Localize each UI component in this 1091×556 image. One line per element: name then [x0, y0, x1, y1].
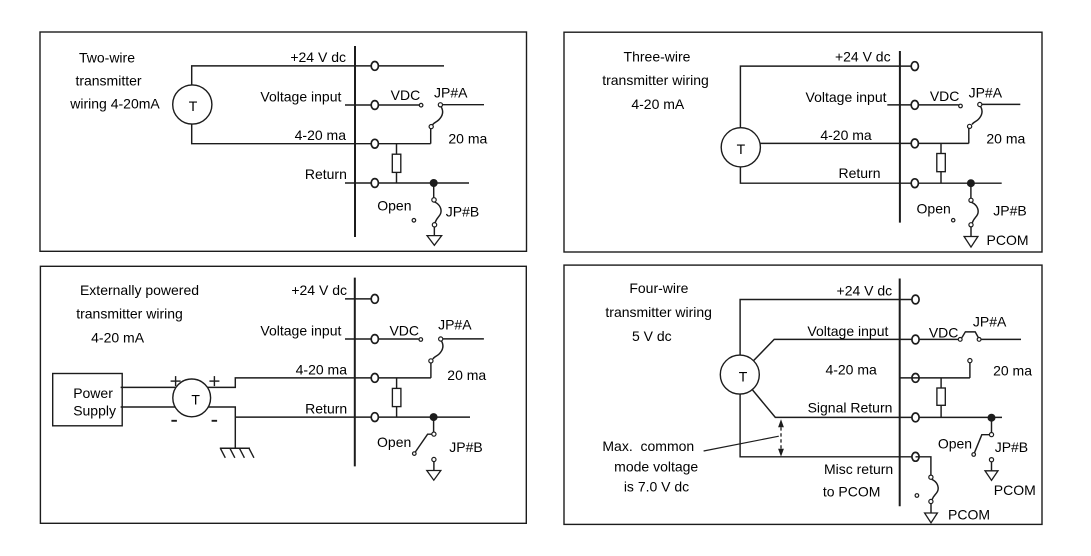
- terminal Return: [371, 179, 378, 188]
- svg-text:JP#B: JP#B: [446, 204, 479, 220]
- svg-text:4-20 ma: 4-20 ma: [295, 127, 347, 143]
- svg-text:JP#B: JP#B: [995, 439, 1028, 455]
- svg-text:20 ma: 20 ma: [448, 130, 487, 146]
- transmitter T1 circle: [173, 85, 212, 124]
- label title "Four-wire transmitter wiring 5 V dc": [605, 280, 712, 344]
- svg-text:PCOM: PCOM: [948, 507, 990, 523]
- polarity + sign (left): [171, 376, 181, 386]
- wire transmitter - to Return row and ground: [206, 407, 235, 448]
- node junction Signal Return/JP#B: [988, 414, 996, 422]
- svg-text:JP#B: JP#B: [993, 203, 1026, 219]
- wire Return row: [235, 416, 470, 418]
- svg-text:Open: Open: [938, 435, 972, 451]
- svg-text:JP#A: JP#A: [434, 85, 468, 101]
- svg-text:4-20 mA: 4-20 mA: [631, 96, 685, 112]
- svg-text:+24 V dc: +24 V dc: [835, 49, 891, 65]
- svg-text:JP#A: JP#A: [969, 84, 1003, 100]
- svg-text:JP#B: JP#B: [449, 439, 482, 455]
- wire stub Voltage input row: [887, 104, 958, 106]
- jumper JP#B (open position): [413, 417, 437, 462]
- svg-text:+24 V dc: +24 V dc: [837, 282, 893, 298]
- svg-text:Supply: Supply: [73, 403, 116, 419]
- terminal Return: [371, 413, 378, 422]
- svg-text:4-20 mA: 4-20 mA: [91, 329, 145, 345]
- node VDC open contact: [419, 103, 423, 107]
- terminal Signal Return: [912, 413, 919, 422]
- wire Misc return terminal to PCOM jumper: [916, 457, 931, 475]
- svg-text:to PCOM: to PCOM: [823, 483, 881, 499]
- wire 4-20 ma terminal to 20 ma jumper stub: [900, 377, 970, 379]
- wire transmitter + to 4-20 ma row: [207, 378, 431, 388]
- wire from transmitter top to +24 V dc terminal: [740, 66, 914, 128]
- svg-text:VDC: VDC: [389, 323, 419, 339]
- wire from transmitter bottom to 4-20 ma terminal: [192, 124, 431, 144]
- jumper Misc return to PCOM (closed): [915, 475, 938, 504]
- chassis ground symbol: [220, 448, 254, 458]
- svg-text:T: T: [739, 368, 748, 384]
- dashed arrow for common mode voltage span: [778, 419, 784, 456]
- ground symbol PCOM below JP#B: [964, 227, 978, 247]
- jumper JP#B (closed to ground): [412, 183, 441, 227]
- terminal Voltage input: [371, 335, 378, 344]
- svg-text:4-20 ma: 4-20 ma: [820, 127, 872, 143]
- terminal Return: [911, 179, 918, 188]
- svg-text:+24 V dc: +24 V dc: [291, 282, 347, 298]
- terminal Voltage input: [371, 101, 378, 110]
- svg-text:+24 V dc: +24 V dc: [290, 49, 346, 65]
- node Open contact of JP#B: [413, 452, 417, 456]
- wire power supply - to transmitter: [121, 406, 179, 408]
- wire from transmitter top to +24 V dc terminal: [740, 300, 915, 375]
- svg-text:Power: Power: [73, 385, 113, 401]
- svg-text:transmitter wiring: transmitter wiring: [605, 304, 712, 320]
- node Open contact of JP#B: [972, 453, 976, 457]
- svg-text:T: T: [737, 141, 746, 157]
- jumper JP#A (set to 20 ma position): [429, 103, 442, 144]
- svg-text:is 7.0 V dc: is 7.0 V dc: [624, 478, 689, 494]
- node junction Return/JP#B: [430, 179, 438, 187]
- wire Return row: [345, 182, 469, 184]
- svg-text:Misc return: Misc return: [824, 461, 893, 477]
- node Open contact of JP#B: [412, 219, 416, 223]
- transmitter T1 circle: [721, 128, 760, 167]
- wire right of JP#A: [982, 103, 1020, 105]
- wire right of JP#A: [443, 104, 485, 106]
- svg-text:Externally powered: Externally powered: [80, 282, 199, 298]
- jumper JP#B (closed to PCOM): [952, 183, 979, 227]
- wire right of JP#A: [443, 338, 484, 340]
- wire from transmitter top to +24 V dc terminal: [192, 66, 444, 85]
- svg-text:VDC: VDC: [391, 87, 421, 103]
- current-sense resistor: [937, 143, 946, 183]
- svg-text:4-20 ma: 4-20 ma: [296, 361, 348, 377]
- label title "Externally powered transmitter wiring 4-20 mA": [76, 282, 199, 345]
- label title "Two-wire transmitter wiring 4-20mA": [69, 49, 160, 111]
- svg-text:5 V dc: 5 V dc: [632, 328, 672, 344]
- terminal 4-20 ma: [911, 139, 918, 148]
- terminal +24 V dc: [371, 62, 378, 71]
- svg-text:Open: Open: [377, 434, 411, 450]
- ground symbol below JP#B: [427, 462, 441, 481]
- terminal Voltage input: [911, 101, 918, 110]
- label title "Three-wire transmitter wiring 4-20 mA": [602, 49, 709, 112]
- panel 1: two-wire transmitter wiring 4-20mA: [40, 32, 527, 251]
- svg-text:JP#A: JP#A: [973, 314, 1007, 330]
- svg-text:Voltage input: Voltage input: [806, 89, 887, 105]
- svg-text:JP#A: JP#A: [438, 316, 472, 332]
- current-sense resistor: [937, 378, 945, 418]
- svg-text:VDC: VDC: [930, 88, 960, 104]
- svg-text:mode voltage: mode voltage: [614, 458, 698, 474]
- ground symbol PCOM at bottom: [925, 504, 938, 523]
- svg-text:Four-wire: Four-wire: [629, 280, 688, 296]
- svg-text:wiring 4-20mA: wiring 4-20mA: [69, 95, 160, 111]
- wire power supply + to transmitter: [121, 386, 180, 388]
- svg-text:Voltage input: Voltage input: [260, 322, 341, 338]
- ground symbol PCOM below JP#B: [985, 462, 998, 481]
- wire from transmitter to Voltage input terminal: [740, 339, 959, 374]
- svg-text:4-20 ma: 4-20 ma: [825, 362, 877, 378]
- svg-text:Max. common: Max. common: [602, 438, 694, 454]
- terminal Voltage input: [912, 335, 919, 344]
- panel 4: four-wire transmitter wiring 5 V dc: [564, 265, 1042, 524]
- svg-text:VDC: VDC: [929, 325, 959, 341]
- svg-text:PCOM: PCOM: [994, 482, 1036, 498]
- svg-text:transmitter wiring: transmitter wiring: [602, 72, 709, 88]
- terminal bus line: [354, 278, 356, 467]
- svg-text:Signal Return: Signal Return: [808, 399, 893, 415]
- svg-text:Two-wire: Two-wire: [79, 49, 135, 65]
- terminal 4-20 ma: [371, 374, 378, 383]
- polarity - sign (left): [171, 420, 177, 422]
- node Open contact of JP#B: [952, 219, 955, 222]
- terminal bus line: [899, 279, 901, 507]
- node open contact of Misc jumper: [915, 494, 919, 498]
- svg-text:PCOM: PCOM: [987, 232, 1029, 248]
- wire from transmitter bottom to Return terminal: [740, 167, 1001, 184]
- terminal +24 V dc: [912, 295, 919, 304]
- svg-text:transmitter wiring: transmitter wiring: [76, 306, 183, 322]
- transmitter T1 circle: [720, 355, 759, 394]
- jumper JP#A (set to 20 ma position): [968, 102, 982, 143]
- svg-text:20 ma: 20 ma: [447, 367, 486, 383]
- node VDC open contact: [959, 104, 963, 108]
- current-sense resistor: [392, 378, 401, 417]
- svg-text:Three-wire: Three-wire: [624, 49, 691, 65]
- terminal bus line: [899, 51, 901, 223]
- ground symbol below JP#B: [427, 227, 442, 245]
- svg-text:Open: Open: [377, 197, 411, 213]
- polarity + sign (right): [209, 376, 219, 386]
- node VDC open contact: [419, 338, 423, 342]
- wire right of JP#A: [981, 338, 1021, 340]
- wire from transmitter right to 4-20 ma terminal: [760, 142, 968, 144]
- current-sense resistor: [392, 144, 401, 183]
- svg-text:Voltage input: Voltage input: [260, 88, 341, 104]
- terminal bus line: [354, 46, 356, 237]
- svg-text:Open: Open: [917, 201, 951, 217]
- wire stub Voltage input row: [345, 338, 419, 340]
- jumper JP#B (open position): [972, 418, 994, 462]
- wire stub Voltage input row: [345, 104, 419, 106]
- wire from transmitter to Signal Return terminal: [740, 375, 1002, 418]
- wire stub +24 V dc row: [345, 298, 375, 300]
- wire from transmitter bottom to Misc return terminal: [740, 375, 915, 457]
- label "Max. common mode voltage is 7.0 V dc": [602, 438, 698, 494]
- svg-text:Return: Return: [305, 166, 347, 182]
- power supply box: [53, 374, 123, 426]
- panel 3: externally powered transmitter wiring 4-20 mA: [40, 266, 526, 523]
- node junction Return/JP#B: [430, 413, 438, 421]
- svg-text:T: T: [189, 98, 198, 114]
- polarity - sign (right): [212, 420, 218, 422]
- terminal 4-20 ma: [912, 374, 919, 383]
- node junction Return/JP#B: [967, 179, 975, 187]
- transmitter T1 circle: [173, 379, 211, 417]
- svg-text:Return: Return: [305, 400, 347, 416]
- terminal Misc return to PCOM: [912, 452, 919, 461]
- svg-text:20 ma: 20 ma: [993, 363, 1032, 379]
- svg-text:20 ma: 20 ma: [986, 131, 1025, 147]
- leader line from max-common-mode note to dashed arrow: [704, 436, 779, 451]
- terminal +24 V dc: [911, 62, 918, 71]
- jumper 20 ma open stub: [968, 359, 972, 378]
- svg-text:Voltage input: Voltage input: [807, 323, 888, 339]
- terminal +24 V dc: [371, 295, 378, 304]
- terminal 4-20 ma: [371, 139, 378, 148]
- svg-text:transmitter: transmitter: [75, 73, 141, 89]
- jumper JP#A (closed: VDC bridged): [958, 332, 981, 342]
- panel 2: three-wire transmitter wiring 4-20 mA: [564, 32, 1042, 252]
- jumper JP#A (set to 20 ma position): [429, 337, 443, 378]
- svg-text:Return: Return: [838, 165, 880, 181]
- svg-text:T: T: [191, 392, 200, 408]
